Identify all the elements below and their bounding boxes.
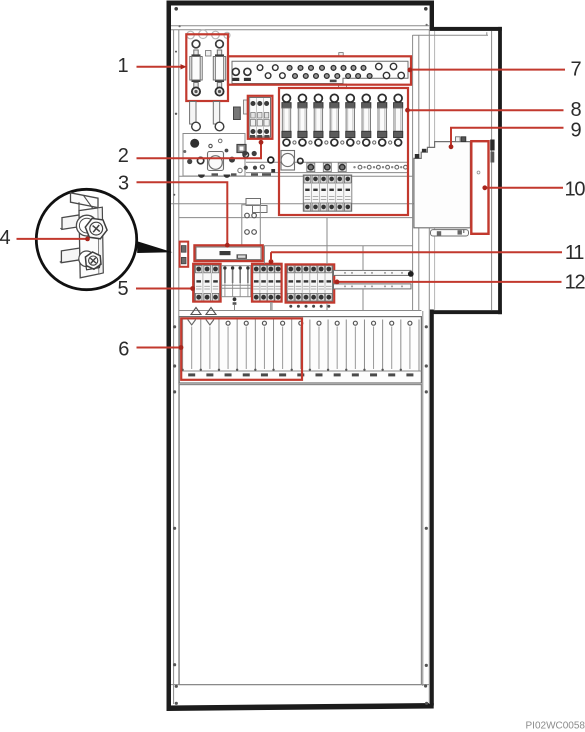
lower plate outline — [183, 134, 245, 177]
svg-text:4: 4 — [0, 227, 11, 249]
strip small holes — [358, 165, 362, 169]
rail end bolt — [408, 271, 414, 277]
red rect item 10 — [471, 141, 488, 234]
lower blank panel — [179, 385, 421, 685]
middle terminal group (unhighlighted) — [222, 266, 251, 297]
svg-text:8: 8 — [570, 99, 581, 121]
busbar right open holes — [376, 63, 382, 69]
rail screws — [175, 51, 177, 53]
cabinet frame top border — [167, 1, 434, 6]
callout 10 line — [485, 187, 563, 189]
cabinet frame right border lower section — [430, 310, 434, 706]
square with circle — [281, 151, 295, 171]
door bottom border — [432, 310, 502, 314]
small hex bolt — [85, 252, 101, 269]
callout numbers — [0, 55, 585, 360]
drawing number — [526, 721, 585, 732]
red rect item 11 — [252, 264, 282, 302]
monitoring module box — [414, 142, 471, 228]
left rail inner line — [178, 30, 180, 685]
right rail line a — [412, 35, 414, 311]
horizontal busbar (item 7) — [232, 61, 408, 83]
busbar stud row top — [287, 66, 292, 71]
horizontal structure line y176 — [179, 175, 413, 177]
callout 5 line — [136, 288, 192, 290]
right rail line b — [418, 35, 420, 311]
callout 11 line — [271, 251, 562, 253]
bolt plate column — [242, 205, 260, 245]
callout 6 line — [137, 347, 181, 349]
callout 3 line — [137, 182, 228, 244]
cabinet frame right border top section — [430, 1, 434, 31]
callout 8 line — [408, 109, 564, 111]
top band line 2 — [171, 29, 430, 31]
plate scattered hardware — [190, 139, 199, 148]
detail pointer arrow — [137, 241, 172, 253]
bracket plate folded right edge — [98, 207, 103, 274]
right rail line c lower — [422, 311, 424, 686]
extra structure lines mid area — [326, 218, 328, 264]
bowtie brackets above shelf — [191, 308, 201, 315]
door hinge dark bar — [490, 140, 494, 151]
DIN mounting rail right — [334, 270, 412, 275]
svg-text:PI02WC0058: PI02WC0058 — [526, 721, 585, 732]
cabinet frame left border — [167, 1, 172, 711]
red rect on rail (detail source) — [180, 242, 189, 267]
red rect item 12 — [286, 264, 335, 302]
terminal block (item 2) — [249, 98, 271, 138]
small relay left of item2 — [234, 107, 241, 120]
red rect item 2 — [248, 96, 273, 139]
callout 9 line — [451, 128, 564, 146]
horizontal line above bottom band — [171, 684, 429, 686]
svg-text:2: 2 — [118, 145, 129, 167]
busbar small label below — [330, 80, 337, 83]
horizontal structure line y204 — [171, 203, 429, 205]
terminal strip below fuse row — [246, 161, 408, 163]
small label between fuses — [206, 51, 212, 57]
PSU slots — [182, 320, 184, 372]
red rect item 6 — [181, 318, 302, 379]
svg-text:3: 3 — [118, 173, 129, 195]
door top border — [430, 27, 502, 31]
breaker group (item 12) — [287, 265, 333, 302]
callout 7 line — [410, 69, 565, 71]
busbar stud row bottom — [293, 74, 298, 79]
red rect item 7 — [228, 56, 411, 84]
svg-text:11: 11 — [565, 242, 584, 264]
strap bolts — [192, 122, 201, 131]
top band screws — [174, 7, 178, 11]
cabinet frame bottom border — [167, 703, 434, 711]
red rect item 1 — [186, 34, 228, 101]
svg-text:5: 5 — [117, 278, 128, 300]
door inner vertical line — [491, 31, 493, 310]
busbar open holes — [257, 65, 263, 71]
small bolt washer — [79, 251, 95, 267]
breaker group (item 11) — [253, 265, 282, 302]
callout 12 line — [337, 281, 562, 283]
svg-text:1: 1 — [117, 55, 128, 77]
door right border — [498, 27, 502, 314]
fuse unit row (item 8) — [282, 94, 291, 146]
label strip (item 3) — [196, 247, 261, 260]
rail bracket highlighted — [181, 246, 186, 253]
red rect item 8 — [279, 88, 408, 215]
marks under item 12 — [289, 305, 292, 308]
callout 2 line — [137, 143, 262, 159]
top band line 1 — [171, 25, 430, 27]
big bolt washer — [76, 215, 97, 236]
left rail outer line — [173, 30, 175, 704]
bracket main plate — [79, 208, 99, 278]
svg-text:10: 10 — [564, 178, 585, 200]
bracket flange top — [71, 193, 99, 208]
callout 1 line — [137, 66, 185, 68]
door left thin line — [434, 31, 436, 310]
fuse holders F1 F2 (item 1) — [190, 40, 202, 95]
bracket tab lower — [61, 248, 80, 263]
horizontal structure line y218 — [179, 217, 413, 219]
red rect item 3 — [194, 245, 262, 261]
DC breaker group (item 5) — [195, 265, 220, 302]
fuse carrier top bumps — [187, 31, 195, 39]
horizontal structure line y310 — [179, 310, 422, 312]
door shelf line — [413, 34, 488, 36]
right rail outer line — [428, 30, 430, 704]
red rect item 5 — [193, 264, 220, 302]
bracket tab upper — [62, 215, 80, 230]
connector stubs below breaker row — [270, 302, 272, 311]
big hex bolt — [85, 218, 107, 238]
PSU shelf frame — [179, 317, 421, 383]
module bottom tray — [431, 230, 469, 236]
DIN breaker group 6-pole — [303, 175, 351, 211]
svg-text:6: 6 — [118, 338, 129, 360]
detail circle — [36, 189, 136, 289]
svg-text:12: 12 — [565, 271, 585, 293]
busbar large terminals — [232, 68, 239, 75]
marks under terminal block — [250, 135, 255, 138]
strip stud terminals — [307, 163, 315, 172]
callout 4 line — [17, 238, 88, 240]
angled busbar plates — [246, 199, 261, 206]
svg-text:7: 7 — [570, 58, 581, 80]
lower-left hardware bits — [237, 145, 246, 153]
svg-text:9: 9 — [570, 119, 581, 141]
fuse output straps — [190, 102, 196, 125]
